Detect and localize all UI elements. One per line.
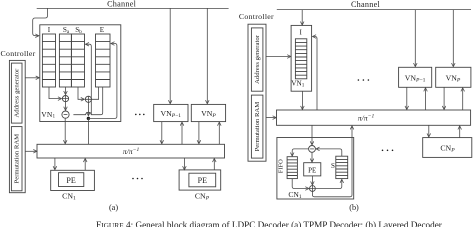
S column (b)	[336, 156, 348, 178]
wire channel drop to VN P-1 (a)	[169, 8, 171, 103]
svg-text:Controller: Controller	[239, 12, 274, 21]
wire S column to subtractor (b)	[316, 149, 342, 156]
wire junction to E column right feedback (a)	[88, 44, 117, 119]
wire channel drop to VN P (a)	[206, 8, 208, 103]
wire CN P to pi bar (b)	[459, 126, 461, 137]
wire feedback up to Sb column (a)	[86, 44, 92, 115]
wire Sa column to adder A1 (a)	[65, 87, 67, 94]
wire pi bar feedback to VN1 right edge (b)	[313, 37, 317, 111]
memory column I (a)	[42, 34, 55, 87]
address generator box (b)	[251, 28, 263, 91]
permutation RAM box (a)	[11, 127, 22, 191]
svg-text:FIGURE 4: General block diagra: FIGURE 4: General block diagram of LDPC …	[96, 220, 442, 227]
adder A1 (a)	[62, 96, 68, 102]
controller outer box (a)	[9, 60, 25, 192]
wire pi bar to VN P (b)	[462, 88, 464, 110]
wire FIFO to adder (b)	[292, 179, 308, 189]
wire E column to adder A2 right input (a)	[92, 87, 99, 99]
wire adder to S column (b)	[315, 180, 342, 189]
PE P inner box (a)	[189, 173, 216, 187]
memory column Sa (a)	[59, 34, 71, 87]
VN1 detail box (a)	[40, 25, 121, 122]
svg-text:PE: PE	[66, 176, 75, 185]
svg-text:π/π−1: π/π−1	[358, 113, 375, 122]
svg-text:Controller: Controller	[1, 49, 36, 58]
svg-text:Address generator: Address generator	[254, 34, 261, 84]
svg-text:E: E	[100, 26, 105, 34]
wire PE P to pi bar (a)	[213, 159, 215, 170]
svg-text:CNP: CNP	[440, 144, 455, 154]
wire permutation RAM to pi bar (a)	[25, 150, 36, 152]
wire subtractor down to pi bar (a)	[64, 118, 66, 144]
wire channel drop to VN P-1 (b)	[414, 10, 416, 67]
svg-text:PE: PE	[308, 167, 316, 175]
svg-text:Channel: Channel	[351, 0, 381, 9]
svg-text:Channel: Channel	[107, 0, 137, 8]
svg-text:VN1: VN1	[41, 110, 55, 120]
ellipsis dots between VN1 box and VN P-1 (a)	[135, 114, 145, 116]
address generator box (a)	[11, 63, 22, 123]
memory column E (a)	[96, 34, 111, 87]
wire pi bar to VN P-1 (b)	[425, 88, 427, 110]
svg-text:VNP: VNP	[201, 109, 216, 119]
VN1 box (b)	[291, 25, 312, 91]
PE box (b)	[304, 163, 321, 176]
adder circle (b)	[310, 186, 316, 192]
svg-text:Address generator: Address generator	[14, 68, 21, 118]
VN P-1 box (b)	[399, 67, 432, 87]
wire adder A2 output to junction (a)	[87, 102, 89, 115]
svg-text:VNP−1: VNP−1	[160, 109, 181, 119]
CN P box (b)	[423, 138, 472, 158]
wire pi bar up to junction (a)	[87, 118, 89, 144]
svg-text:S: S	[331, 162, 335, 170]
wire pi bar to PE P (a)	[183, 158, 185, 170]
wire subtractor to PE (b)	[311, 152, 313, 162]
junction dot (a)	[87, 117, 90, 120]
memory column I (b)	[295, 39, 306, 79]
wire VN1 down to pi bar (b)	[301, 91, 303, 109]
wire channel drop to VN P (b)	[452, 10, 454, 67]
pi interleaver bar (a)	[37, 144, 225, 158]
wire VN P-1 to pi bar (b)	[406, 87, 408, 109]
ellipsis dots between VN1 and VN P-1 (b)	[358, 79, 370, 81]
adder A2 (a)	[85, 96, 91, 102]
svg-text:I: I	[299, 29, 302, 37]
wire channel bus (a)	[37, 7, 229, 9]
subtractor circle (a)	[62, 111, 69, 118]
wire channel drop to VN1 detail box (a)	[33, 8, 48, 35]
wire address generator to VN1 box (b)	[266, 56, 291, 58]
svg-text:(b): (b)	[349, 203, 359, 212]
wire PE1 to pi bar (a)	[84, 159, 86, 171]
wire I column to adder A1 (a)	[49, 87, 61, 99]
wire pi bar to CN P (b)	[428, 125, 430, 136]
wire VN P to pi bar (b)	[443, 87, 445, 109]
VN P box (b)	[436, 67, 471, 87]
wire pi bar down to CN1 subtractor (b)	[311, 125, 313, 144]
VN P box (a)	[191, 104, 225, 121]
wire channel bus (b)	[277, 9, 471, 11]
subtractor circle (b)	[309, 146, 316, 153]
svg-text:I: I	[48, 26, 51, 34]
wire subtractor to FIFO (b)	[292, 149, 308, 156]
wire VN P to pi bar (a)	[198, 122, 200, 144]
wire adder down and around to pi bar (b)	[312, 126, 352, 197]
svg-text:FIFO: FIFO	[278, 159, 285, 173]
controller outer box (b)	[248, 24, 266, 161]
svg-text:VNP−1: VNP−1	[405, 73, 426, 83]
wire subtractor output with hop to Sb and E feedback (a)	[73, 87, 102, 115]
svg-text:VNP: VNP	[446, 73, 461, 83]
pi interleaver bar (b)	[277, 110, 471, 125]
wire pi bar to VN P-1 (a)	[181, 122, 183, 144]
svg-text:PE: PE	[198, 176, 207, 185]
CN1 detail box (b)	[277, 138, 354, 200]
svg-text:CNP: CNP	[195, 191, 210, 201]
wire PE to adder (b)	[311, 176, 313, 185]
ellipsis dots between CN1 and CN P (b)	[382, 150, 394, 152]
VN P-1 box (a)	[154, 104, 188, 121]
FIFO column (b)	[287, 157, 297, 179]
PE1 outer box (a)	[51, 170, 95, 190]
wire address generator to VN1 box (a)	[25, 77, 39, 79]
permutation RAM box (b)	[251, 95, 263, 158]
ellipsis dots between PE boxes (a)	[132, 178, 143, 180]
wire adder A1 to subtractor (a)	[65, 102, 67, 110]
wire VN P-1 to pi bar (a)	[161, 122, 163, 144]
wire permutation RAM to pi bar (b)	[266, 117, 276, 119]
wire pi bar to PE1 (a)	[54, 158, 56, 170]
svg-text:CN1: CN1	[62, 191, 76, 201]
wire pi bar to VN P (a)	[218, 122, 220, 144]
wire Sb column to adder A2 (a)	[78, 87, 84, 99]
svg-text:Permutation RAM: Permutation RAM	[254, 102, 261, 152]
memory column Sb (a)	[71, 34, 84, 87]
PE P outer box (a)	[179, 170, 221, 190]
svg-text:VN1: VN1	[291, 78, 305, 88]
svg-text:CN1: CN1	[288, 190, 302, 200]
wire channel drop to VN1 box (b)	[301, 10, 303, 25]
svg-text:Permutation RAM: Permutation RAM	[14, 134, 21, 184]
PE1 inner box (a)	[59, 173, 84, 187]
svg-text:(a): (a)	[109, 203, 118, 212]
svg-text:π/π−1: π/π−1	[123, 147, 140, 156]
